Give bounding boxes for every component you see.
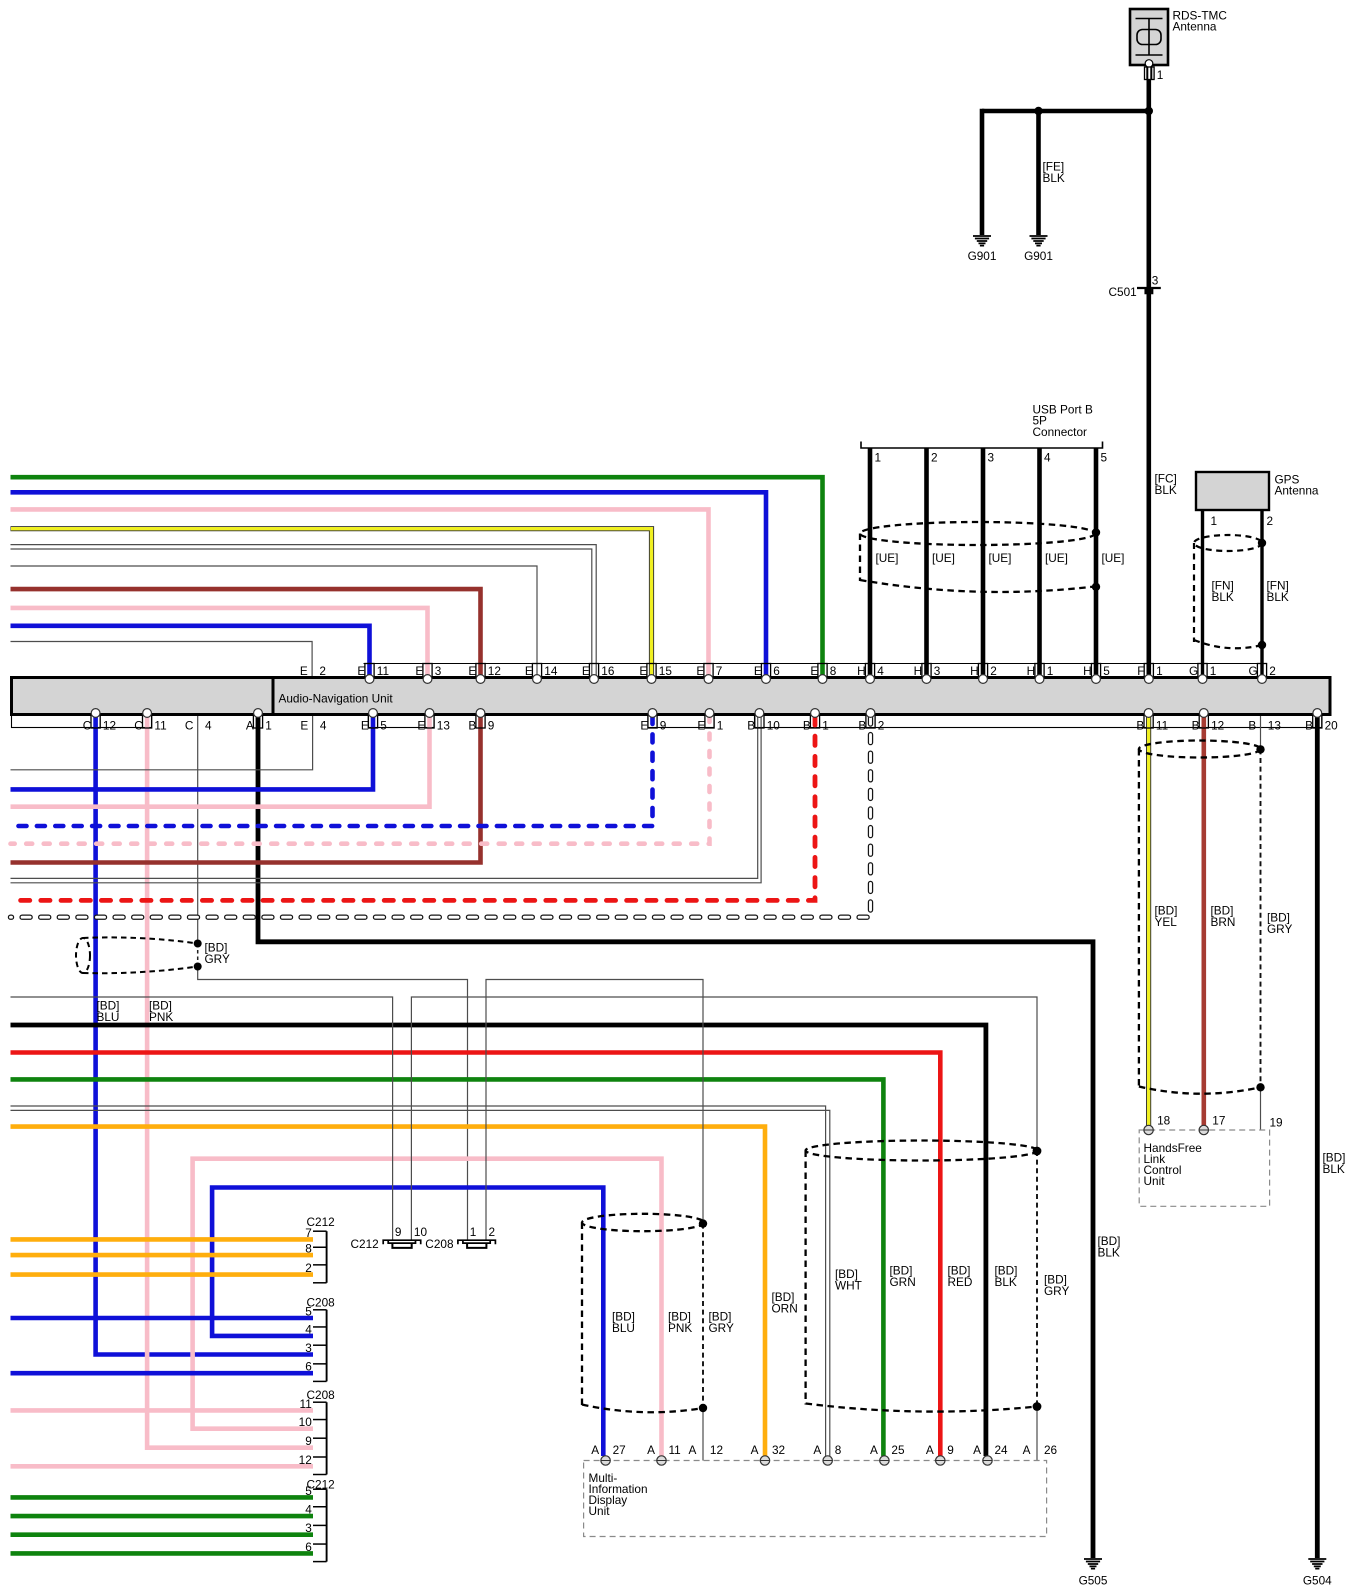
- wire E12 RED(dark) from left edge to pin E12: [11, 589, 481, 676]
- svg-text:3: 3: [988, 451, 995, 465]
- label [BD] GRN (A25 wire): [890, 1264, 916, 1290]
- svg-text:12: 12: [1211, 719, 1224, 733]
- svg-text:E: E: [696, 664, 704, 678]
- pin E5 (Audio-Navigation Unit, bottom row): [361, 709, 387, 733]
- pin 17 (HandsFree Link Control Unit): [1199, 1114, 1225, 1135]
- pin A9 (Multi-Information Display Unit): [926, 1443, 954, 1465]
- svg-text:4: 4: [877, 664, 884, 678]
- svg-text:A: A: [689, 1443, 697, 1457]
- wire C4 GRY drain upper segment: [197, 716, 199, 944]
- wire B11 YEL core: [1147, 716, 1150, 1126]
- svg-text:13: 13: [1268, 719, 1282, 733]
- shield junction dot top (A26 drain): [1033, 1147, 1042, 1156]
- svg-text:1: 1: [1157, 68, 1164, 82]
- wire E15 YEL from left edge to pin E15: [11, 529, 652, 676]
- svg-text:15: 15: [659, 664, 673, 678]
- svg-text:11: 11: [669, 1443, 681, 1457]
- svg-text:[UE]: [UE]: [989, 551, 1012, 565]
- wire C212 pin 7 ORN to left edge: [11, 1237, 314, 1242]
- svg-text:9: 9: [395, 1225, 402, 1239]
- wire C212 lower pin GRN #3 to left edge: [11, 1532, 314, 1537]
- label [BD] ORN (A32 wire): [772, 1290, 798, 1316]
- svg-text:E: E: [582, 664, 590, 678]
- shield cylinder around USB wires: [860, 522, 1095, 592]
- svg-text:H: H: [857, 664, 866, 678]
- wire B13 GRY drain shield segment (dashed): [1260, 749, 1262, 1087]
- junction dot at G901 branch: [1034, 107, 1042, 115]
- wire GRY drain in-line C208 pin 2 to MID pin A12: [486, 980, 703, 1241]
- in-line connector C501 pin 3: [1109, 274, 1161, 300]
- svg-text:9: 9: [305, 1434, 312, 1448]
- wire USB pin 1 BLK to Audio-Nav pin H: [868, 448, 873, 676]
- shield cylinder around B11/B12 wires: [1139, 741, 1261, 1094]
- svg-text:BLK: BLK: [1323, 1162, 1345, 1176]
- pin E2 (Audio-Navigation Unit, top row): [300, 664, 326, 678]
- svg-text:A: A: [813, 1443, 821, 1457]
- svg-text:C: C: [185, 719, 194, 733]
- wire E14 thin from left edge to pin E14: [11, 566, 538, 676]
- in-line connector C212 pins 9/10: [383, 1240, 421, 1248]
- svg-text:GRY: GRY: [205, 952, 230, 966]
- svg-text:9: 9: [488, 719, 495, 733]
- svg-text:G: G: [1189, 664, 1198, 678]
- svg-text:E: E: [300, 664, 308, 678]
- pin E3 (Audio-Navigation Unit, top row): [415, 664, 441, 684]
- wire E16 WHT double-line inner: [11, 549, 592, 676]
- wire B11 YEL outline to HandsFree pin 18: [1146, 716, 1151, 1126]
- pin A27 (Multi-Information Display Unit): [591, 1443, 626, 1465]
- wire C11 PNK to connector C208 pin 9: [147, 716, 313, 1448]
- wire A1 BLK to ground G505: [258, 716, 1093, 1558]
- label [BD] BLK (A1 ground wire): [1098, 1234, 1121, 1260]
- Multi-Information Display Unit block: [584, 1461, 1047, 1537]
- connector C208 (lower): [307, 1388, 336, 1475]
- wire E6 BLU from left edge to pin E6: [11, 492, 767, 676]
- svg-text:A: A: [591, 1443, 599, 1457]
- svg-text:E: E: [639, 664, 647, 678]
- svg-text:GRY: GRY: [1044, 1284, 1069, 1298]
- svg-text:A: A: [647, 1443, 655, 1457]
- svg-text:Antenna: Antenna: [1173, 20, 1217, 34]
- svg-text:25: 25: [891, 1443, 905, 1457]
- shield junction dot bottom (C4 drain): [194, 963, 202, 971]
- svg-text:4: 4: [205, 719, 212, 733]
- svg-text:1: 1: [470, 1225, 477, 1239]
- pin E4 (Audio-Navigation Unit, bottom row): [300, 719, 326, 733]
- svg-text:G504: G504: [1303, 1574, 1332, 1588]
- wire GRY drain in-line C212 pin 9 to left edge: [11, 997, 393, 1240]
- svg-text:[UE]: [UE]: [932, 551, 955, 565]
- svg-text:12: 12: [103, 719, 116, 733]
- wire C208 pin 6 BLU to left edge: [11, 1371, 314, 1376]
- label [BD] GRY (C4 drain): [205, 941, 230, 967]
- label [BD] BRN (B12 wire): [1211, 904, 1236, 930]
- USB Port B 5P Connector name label: [1033, 403, 1093, 439]
- pin E1 (Audio-Navigation Unit, bottom row): [697, 709, 723, 733]
- svg-text:BRN: BRN: [1211, 915, 1236, 929]
- wire ground drop right G901 [FE] BLK: [1036, 111, 1041, 235]
- wire C212 lower pin GRN #4 to left edge: [11, 1551, 314, 1556]
- pin E6 (Audio-Navigation Unit, top row): [754, 664, 780, 684]
- pin E7 (Audio-Navigation Unit, top row): [696, 664, 722, 684]
- svg-text:BLK: BLK: [1043, 171, 1065, 185]
- svg-text:[UE]: [UE]: [1102, 551, 1125, 565]
- pin F1 (Audio-Navigation Unit, top row): [1137, 664, 1162, 684]
- RDS-TMC Antenna component box: [1130, 9, 1168, 65]
- wire E8 GRN from left edge to pin E8: [11, 477, 823, 676]
- ground symbol G901: [968, 236, 997, 263]
- ground symbol G901: [1024, 236, 1053, 263]
- svg-text:13: 13: [437, 719, 451, 733]
- label [BD] BLU (C12 wire): [97, 999, 120, 1025]
- svg-text:4: 4: [1044, 451, 1051, 465]
- RDS-TMC Antenna name label: [1173, 9, 1228, 34]
- svg-text:E: E: [300, 719, 308, 733]
- svg-text:E: E: [810, 664, 818, 678]
- pin A25 (Multi-Information Display Unit): [870, 1443, 905, 1465]
- svg-text:A: A: [926, 1443, 934, 1457]
- label [BD] RED (A9 wire): [948, 1264, 973, 1290]
- svg-text:B: B: [1248, 719, 1256, 733]
- svg-text:2: 2: [878, 719, 885, 733]
- junction dot at antenna lead / ground branch: [1145, 107, 1153, 115]
- connector strip below bar (pins C12,C11): [12, 715, 152, 728]
- svg-text:A: A: [973, 1443, 981, 1457]
- wire B13 GRY drain lower segment to HandsFree pin 19: [1260, 1087, 1262, 1130]
- wire shield branch horizontal to grounds: [982, 109, 1149, 114]
- label [BD] BLU (A27 wire): [612, 1310, 635, 1336]
- svg-text:1: 1: [1156, 664, 1163, 678]
- shield junction dot bottom (A12 drain): [699, 1404, 707, 1412]
- wire B1 RED dashed to left edge: [11, 716, 816, 900]
- label [FN] BLK (GPS pin1 wire): [1212, 579, 1234, 605]
- svg-text:3: 3: [435, 664, 442, 678]
- svg-text:E: E: [361, 719, 369, 733]
- svg-text:B: B: [1305, 719, 1313, 733]
- wire E9 BLU dashed to left edge: [11, 716, 653, 826]
- svg-text:A: A: [870, 1443, 878, 1457]
- svg-text:6: 6: [773, 664, 780, 678]
- wire A26 GRY drain shield segment (dashed): [1036, 1151, 1038, 1407]
- svg-text:E: E: [417, 719, 425, 733]
- wire C208 pin 12 PNK to left edge: [11, 1464, 314, 1469]
- pin B11 (Audio-Navigation Unit, bottom row): [1136, 709, 1168, 733]
- svg-text:11: 11: [154, 719, 166, 733]
- wire E7 PNK from left edge to pin E7: [11, 509, 709, 676]
- svg-text:9: 9: [947, 1443, 954, 1457]
- svg-text:GRY: GRY: [1267, 922, 1292, 936]
- svg-text:1: 1: [1211, 514, 1218, 528]
- wire A32 ORN from left edge to MID pin A32: [11, 1127, 766, 1456]
- svg-text:C: C: [134, 719, 143, 733]
- svg-text:YEL: YEL: [1155, 915, 1178, 929]
- pin E15 (Audio-Navigation Unit, top row): [639, 664, 672, 684]
- svg-text:BLK: BLK: [1212, 590, 1234, 604]
- wire ground drop left G901: [980, 109, 985, 235]
- shield junction dot bottom (B13 drain): [1256, 1083, 1264, 1091]
- pin A32 (Multi-Information Display Unit): [751, 1443, 786, 1465]
- wire C12 BLU to connector C208 pin 3: [96, 716, 313, 1355]
- svg-text:1: 1: [875, 451, 882, 465]
- wire E1 PNK dashed to left edge: [11, 716, 710, 844]
- wire B20 BLK to ground G504: [1315, 716, 1320, 1558]
- svg-text:H: H: [914, 664, 923, 678]
- pin A8 (Multi-Information Display Unit): [813, 1443, 841, 1465]
- wire GRY drain in-line C212 pin 10 to MID shield: [411, 997, 1037, 1240]
- svg-text:BLK: BLK: [1267, 590, 1289, 604]
- svg-text:B: B: [468, 719, 476, 733]
- wire A12 GRY drain lower segment to MID pin A12: [702, 1408, 704, 1461]
- svg-text:BLK: BLK: [1098, 1246, 1120, 1260]
- svg-text:PNK: PNK: [668, 1321, 692, 1335]
- svg-text:32: 32: [772, 1443, 785, 1457]
- label [FN] BLK (GPS pin2 wire): [1267, 579, 1289, 605]
- svg-text:2: 2: [319, 664, 326, 678]
- connector C212 (lower): [307, 1478, 335, 1562]
- svg-text:2: 2: [1269, 664, 1276, 678]
- svg-text:27: 27: [613, 1443, 626, 1457]
- wire GPS pin 2 [FN] BLK to Audio-Nav pin G2: [1260, 510, 1263, 676]
- svg-text:PNK: PNK: [149, 1010, 173, 1024]
- label [BD] PNK (A11 wire): [668, 1310, 692, 1336]
- svg-text:11: 11: [377, 664, 389, 678]
- shield junction dot bottom (A26 drain): [1033, 1402, 1042, 1411]
- wire E3 PNK from left edge to pin E3: [11, 608, 428, 676]
- wire B13 GRY drain upper segment: [1260, 716, 1262, 749]
- svg-text:5: 5: [1101, 451, 1108, 465]
- USB Port B 5P Connector bracket: [861, 442, 1103, 449]
- wire A12 GRY drain shield segment (dashed): [702, 1224, 704, 1408]
- wire USB pin 3 BLK to Audio-Nav pin H: [981, 448, 986, 676]
- connector strip below bar (pins E5,E13): [368, 715, 434, 728]
- pin B10 (Audio-Navigation Unit, bottom row): [747, 709, 780, 733]
- wire USB pin 4 BLK to Audio-Nav pin H: [1037, 448, 1042, 676]
- wire E11 BLU from left edge to pin E11: [11, 626, 370, 676]
- svg-text:C: C: [83, 719, 92, 733]
- svg-text:B: B: [803, 719, 811, 733]
- wire A11 PNK from connector C208 pin 10 to MID pin A11: [193, 1159, 662, 1456]
- wire E5 BLU to left edge: [11, 716, 374, 789]
- svg-text:[UE]: [UE]: [876, 551, 899, 565]
- wire E16 WHT double-line outer: [11, 545, 597, 676]
- svg-text:9: 9: [660, 719, 667, 733]
- svg-text:B: B: [1192, 719, 1200, 733]
- wire USB pin 5 BLK to Audio-Nav pin H: [1094, 448, 1099, 676]
- shield cylinder around C12/C11 wires: [76, 937, 198, 973]
- pin H2 (Audio-Navigation Unit, top row): [970, 664, 997, 684]
- pin C11 (Audio-Navigation Unit, bottom row): [134, 709, 166, 733]
- svg-text:1: 1: [1047, 664, 1054, 678]
- shield cylinder around A27/A11 wires: [582, 1214, 704, 1412]
- svg-text:1: 1: [1210, 664, 1217, 678]
- wire GPS pin 1 [FN] BLK to Audio-Nav pin G1: [1201, 510, 1204, 676]
- svg-text:8: 8: [830, 664, 837, 678]
- svg-text:RED: RED: [948, 1275, 973, 1289]
- svg-text:8: 8: [835, 1443, 842, 1457]
- svg-text:2: 2: [990, 664, 997, 678]
- svg-text:C208: C208: [425, 1237, 454, 1251]
- GPS Antenna name label: [1275, 473, 1319, 498]
- pin E9 (Audio-Navigation Unit, bottom row): [640, 709, 666, 733]
- label [BD] YEL (B11 wire): [1155, 904, 1178, 930]
- wire A25 GRN from left edge to MID pin A25: [11, 1079, 884, 1456]
- svg-text:12: 12: [488, 664, 501, 678]
- shield cylinder around GPS antenna wire: [1194, 535, 1262, 648]
- svg-text:Unit: Unit: [1144, 1174, 1166, 1188]
- Audio-Navigation Unit block: [12, 676, 1331, 716]
- svg-text:BLK: BLK: [1155, 483, 1177, 497]
- svg-text:B: B: [747, 719, 755, 733]
- svg-text:F: F: [1137, 664, 1144, 678]
- connector C208 (upper): [307, 1296, 336, 1382]
- label [BD] GRY (A26 drain): [1044, 1273, 1069, 1299]
- label [BD] PNK (C11 wire): [149, 999, 173, 1025]
- shield cylinder around A8/A25/A9/A24 wires: [806, 1141, 1038, 1412]
- svg-text:20: 20: [1325, 719, 1339, 733]
- svg-text:E: E: [357, 664, 365, 678]
- pin H3 (Audio-Navigation Unit, top row): [914, 664, 941, 684]
- svg-text:H: H: [1083, 664, 1092, 678]
- svg-text:Connector: Connector: [1033, 425, 1087, 439]
- svg-text:C501: C501: [1109, 285, 1137, 299]
- label [BD] GRY (A12 drain): [709, 1310, 734, 1336]
- wire A8 WHT double-line outer: [11, 1106, 826, 1456]
- GPS Antenna component box: [1196, 472, 1269, 510]
- pin G1 (Audio-Navigation Unit, top row): [1189, 664, 1216, 684]
- wire E15 YEL outline: [11, 529, 652, 676]
- svg-text:17: 17: [1212, 1114, 1225, 1128]
- svg-text:7: 7: [716, 664, 723, 678]
- pin E12 (Audio-Navigation Unit, top row): [468, 664, 501, 684]
- HandsFree Link Control Unit block: [1139, 1130, 1269, 1206]
- label [BD] WHT (A8 wire): [835, 1267, 862, 1293]
- svg-text:G505: G505: [1079, 1574, 1108, 1588]
- svg-text:10: 10: [299, 1415, 313, 1429]
- svg-text:A: A: [1023, 1443, 1031, 1457]
- svg-text:3: 3: [1152, 274, 1159, 288]
- wire B2 GRY capsule-dashed outline to left edge: [11, 716, 871, 917]
- svg-text:A: A: [751, 1443, 759, 1457]
- svg-text:G901: G901: [1024, 249, 1053, 263]
- wire B12 BRN to HandsFree pin 17: [1202, 716, 1207, 1126]
- svg-text:ORN: ORN: [772, 1302, 798, 1316]
- svg-text:H: H: [970, 664, 979, 678]
- svg-text:2: 2: [489, 1225, 496, 1239]
- svg-text:2: 2: [1267, 514, 1274, 528]
- pin A1 (Audio-Navigation Unit, bottom row): [246, 709, 272, 733]
- svg-text:BLU: BLU: [97, 1010, 120, 1024]
- svg-text:E: E: [640, 719, 648, 733]
- svg-text:G901: G901: [968, 249, 997, 263]
- wire C208 pin 11 PNK to left edge: [11, 1408, 314, 1413]
- svg-text:5: 5: [380, 719, 387, 733]
- wire B2 GRY capsule-dashed white core: [11, 716, 871, 917]
- pin B20 (Audio-Navigation Unit, bottom row): [1305, 709, 1338, 733]
- wire E2 thin from left edge to pin E2: [11, 642, 313, 677]
- label [FE] BLK wire color: [1043, 160, 1065, 186]
- svg-text:E: E: [525, 664, 533, 678]
- pin H1 (Audio-Navigation Unit, top row): [1027, 664, 1054, 684]
- svg-text:WHT: WHT: [835, 1279, 862, 1293]
- pin E16 (Audio-Navigation Unit, top row): [582, 664, 615, 684]
- svg-text:4: 4: [320, 719, 327, 733]
- shield junction dot top (B13 drain): [1256, 745, 1264, 753]
- shield junction dot top (USB pin 5 wire): [1092, 528, 1100, 536]
- wire B10 WHT double-line outer to left edge: [11, 716, 758, 878]
- svg-text:GRY: GRY: [709, 1321, 734, 1335]
- svg-text:3: 3: [305, 1341, 312, 1355]
- svg-text:1: 1: [265, 719, 272, 733]
- svg-text:1: 1: [822, 719, 829, 733]
- pin E11 (Audio-Navigation Unit, top row): [357, 664, 389, 684]
- shield junction dot bottom (USB pin 5 wire): [1092, 583, 1100, 591]
- pin H4 (Audio-Navigation Unit, top row): [857, 664, 884, 684]
- in-line connector C208 pins 1/2: [458, 1240, 496, 1248]
- svg-text:14: 14: [544, 664, 558, 678]
- pin E14 (Audio-Navigation Unit, top row): [525, 664, 558, 684]
- svg-text:19: 19: [1270, 1115, 1283, 1129]
- connector strip below bar (pins E9,E1): [648, 715, 714, 728]
- RDS-TMC antenna connector circle: [1145, 60, 1153, 68]
- wire E13 PNK to left edge: [11, 716, 430, 807]
- svg-text:5: 5: [1103, 664, 1110, 678]
- shield junction dot top (GPS pin 2 wire): [1258, 539, 1266, 547]
- pin B9 (Audio-Navigation Unit, bottom row): [468, 709, 494, 733]
- svg-text:A: A: [246, 719, 254, 733]
- wire RDS-TMC antenna lead [FC] BLK vertical to Audio-Navigation Unit pin F1: [1147, 80, 1152, 678]
- ground symbol G504: [1303, 1559, 1332, 1588]
- svg-text:E: E: [468, 664, 476, 678]
- RDS-TMC antenna terminal pin symbol: [1145, 67, 1155, 80]
- svg-text:[UE]: [UE]: [1045, 551, 1068, 565]
- pin H5 (Audio-Navigation Unit, top row): [1083, 664, 1110, 684]
- wire C4 GRY drain to in-line connector C208 pin 1: [198, 967, 468, 1241]
- wire C4 GRY drain shield segment (dashed): [197, 944, 199, 967]
- svg-text:26: 26: [1044, 1443, 1058, 1457]
- svg-text:BLU: BLU: [612, 1321, 635, 1335]
- svg-text:C212: C212: [351, 1237, 379, 1251]
- wire A24 BLK from left edge to MID pin A24: [11, 1025, 986, 1456]
- pin A26 (Multi-Information Display Unit): [1023, 1443, 1058, 1457]
- svg-text:4: 4: [305, 1322, 312, 1336]
- shield junction dot bottom (GPS pin 2 wire): [1258, 641, 1266, 649]
- wire C212 pin 2 ORN to left edge: [11, 1272, 314, 1277]
- shield junction dot top (A12 drain): [699, 1219, 707, 1227]
- ground symbol G505: [1079, 1559, 1108, 1588]
- svg-text:3: 3: [934, 664, 941, 678]
- pin A12 (Multi-Information Display Unit): [689, 1443, 724, 1457]
- svg-text:E: E: [697, 719, 705, 733]
- pin B13 (Audio-Navigation Unit, bottom row): [1248, 719, 1281, 733]
- pin C4 (Audio-Navigation Unit, bottom row): [185, 719, 212, 733]
- wire B9 RED(dark) to left edge: [11, 716, 481, 863]
- pin B2 (Audio-Navigation Unit, bottom row): [858, 709, 884, 733]
- pin C12 (Audio-Navigation Unit, bottom row): [83, 709, 116, 733]
- pin G2 (Audio-Navigation Unit, top row): [1249, 664, 1276, 684]
- wire A8 WHT double-line inner: [11, 1110, 830, 1456]
- pin B12 (Audio-Navigation Unit, bottom row): [1192, 709, 1225, 733]
- wire B10 WHT double-line inner to left edge: [11, 716, 762, 883]
- svg-text:1: 1: [717, 719, 724, 733]
- svg-text:Unit: Unit: [589, 1504, 611, 1518]
- svg-text:2: 2: [931, 451, 938, 465]
- wire USB pin 2 BLK to Audio-Nav pin H: [924, 448, 929, 676]
- svg-text:24: 24: [995, 1443, 1009, 1457]
- svg-text:GRN: GRN: [890, 1275, 916, 1289]
- wire A26 GRY drain lower segment to MID pin A26: [1036, 1407, 1038, 1461]
- svg-text:18: 18: [1157, 1114, 1171, 1128]
- label [BD] BLK (A24 wire): [995, 1264, 1018, 1290]
